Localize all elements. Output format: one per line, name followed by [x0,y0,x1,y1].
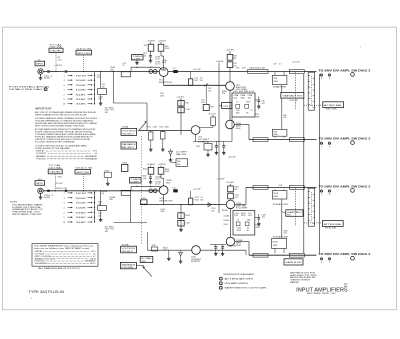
svg-text:INPUT SEL: INPUT SEL [77,53,92,55]
wire +100V drop [150,42,152,44]
svg-text:6DJ8: 6DJ8 [236,128,241,130]
svg-text:250K: 250K [76,203,88,205]
svg-text:1M 82: 1M 82 [76,75,88,77]
svg-text:1: 1 [63,75,65,77]
wire drop from S1 label [83,55,85,72]
boxed label VARIABLE (lower) [120,262,136,268]
svg-text:8: 8 [45,89,46,91]
svg-text:GAIN ADJ R37: GAIN ADJ R37 [282,95,302,98]
svg-text:WERE OBTAINED FROM THE OSCILLO: WERE OBTAINED FROM THE OSCILLOSCOPE IN U… [35,113,87,116]
svg-text:WITH CONTROL SETTINGS AND SIGN: WITH CONTROL SETTINGS AND SIGNAL CONDITI… [35,124,85,127]
boxed label S10B [121,142,137,149]
connector J101 INPUT box label [35,181,45,186]
wire CH2 plate output run y187.4 [246,186,317,188]
svg-text:WAVEFORMS FOR 4 OUTPUT AMPL: WAVEFORMS FOR 4 OUTPUT AMPL [225,287,268,290]
svg-text:500K: 500K [76,80,88,82]
ground below R51 [150,140,152,148]
svg-text:22: 22 [251,110,253,112]
resistor R111 chain [100,191,102,206]
svg-text:W: W [329,194,331,196]
wire main input line CH2 [43,190,159,192]
svg-text:250K: 250K [76,85,88,87]
svg-text:R: R [321,78,323,80]
diode CR14 circle [153,70,157,74]
svg-text:8-50: 8-50 [234,98,238,100]
svg-text:AMPL: AMPL [236,125,242,128]
ground below R111 chain [100,210,102,218]
svg-text:(ALL READINGS ARE IN VOLTS DC): (ALL READINGS ARE IN VOLTS DC) [38,267,80,270]
svg-text:+12.4V: +12.4V [193,69,202,71]
svg-text:GAIN R147: GAIN R147 [285,261,301,264]
switch slash on cathode wire [204,83,208,86]
wire R16 to transistor top [160,51,162,56]
wire Q124 emitter down to V134 [230,209,232,238]
terminal pins under W2 label [320,142,322,144]
ground CR164 [180,260,182,262]
svg-text:TO 5MV DIV AMPL SW DIAG 2: TO 5MV DIV AMPL SW DIAG 2 [318,137,371,141]
svg-text:.001: .001 [143,178,147,180]
svg-text:450K: 450K [273,81,278,83]
junction dots on CH1 input line [55,71,56,72]
resistor R28 box below wire [274,72,276,76]
svg-text:R141A R141B: R141A R141B [273,203,289,206]
resistor R161 box on line [151,247,157,251]
svg-text:NOTE:: NOTE: [10,202,19,204]
svg-text:R137: R137 [287,215,291,217]
svg-text:.6uH: .6uH [242,67,247,69]
svg-text:Y: Y [329,262,331,264]
coax line box W3a [253,186,268,190]
svg-text:TRIGGERING: TRIGGERING [35,263,48,265]
svg-text:470: 470 [97,77,100,79]
resistor R15 box [148,44,154,51]
wire Q124 to W3 [235,203,246,205]
cluster R120 divider (lower) [180,205,182,228]
svg-text:1: 1 [63,193,65,195]
resistor R38 box above wire [274,136,276,138]
wire R15 down to C16 [150,51,152,55]
svg-text:R110 BAL: R110 BAL [121,266,133,269]
capacitor C10 over input line [47,70,50,72]
terminal pins under W3 label [320,190,322,192]
svg-text:1: 1 [63,207,65,209]
svg-text:+100V: +100V [216,61,225,63]
coax line box W2a [253,138,268,142]
wire network box right components [255,99,259,101]
coax line box W1b [289,70,304,74]
svg-text:L128: L128 [278,185,282,187]
wire big box leg to bus [231,117,233,141]
wire top bus over caps [210,243,226,245]
ground below C53 [162,139,164,148]
svg-text:+12.4V: +12.4V [55,183,64,185]
svg-text:AUTO: AUTO [90,262,96,265]
resistor R11 chain [100,72,102,89]
circled diagram ref (W2) [351,141,355,145]
connector J1 INPUT box label [35,61,45,66]
svg-text:ATTEN BAL: ATTEN BAL [324,104,344,107]
svg-text:R138: R138 [273,241,278,243]
svg-text:U: U [329,146,331,148]
svg-text:VARIABLE: VARIABLE [122,143,137,146]
boxed label 1M COMP (lower) [130,178,142,183]
resistor R115 box [150,166,152,168]
boxed label ATTEN BAL (lower) [322,221,343,227]
svg-text:20K: 20K [76,217,88,219]
ground C57 [215,151,217,153]
svg-text:150K: 150K [165,171,170,173]
svg-text:R154: R154 [141,198,145,200]
resistor R122 box [189,198,193,205]
capacitor C185 [221,246,224,248]
coax line box W2b [289,138,304,142]
svg-text:.001: .001 [262,217,265,219]
wire drop from S101 label [83,174,85,191]
circled diagram ref 6 (W1) [351,73,355,77]
transistor Q164 circle [192,246,201,255]
svg-text:SW SECT: SW SECT [122,251,135,253]
wire switch common bus (upper table) [94,74,96,105]
wire R116 to V113 top [160,174,162,178]
network box upper feedback [232,93,255,117]
wire vertical x147 to DC shift stage [146,103,148,131]
svg-text:+: + [360,46,362,49]
svg-text:R35: R35 [236,112,240,114]
svg-text:4.5K: 4.5K [283,233,287,235]
svg-text:100K: 100K [76,90,88,92]
svg-text:IMPORTANT:: IMPORTANT: [35,108,52,111]
resistor R112 series box on line [121,190,130,195]
resistor R51 box hanging [149,132,154,140]
svg-text:2: 2 [63,212,65,214]
svg-text:BAL SECT: BAL SECT [122,146,135,149]
svg-text:+12.4V: +12.4V [208,113,217,115]
svg-text:R115: R115 [143,169,147,171]
svg-text:1: 1 [63,90,65,92]
svg-text:R107: R107 [105,170,109,172]
resistor R16 box [158,44,164,51]
wire R55 to Q54 [212,125,214,127]
wire cathode line to Q24 y85.3 [163,76,165,85]
svg-text:+: + [31,297,33,300]
svg-text:50K: 50K [76,94,88,96]
resistor R103 box far left [122,164,128,171]
svg-text:V: V [321,194,323,196]
diode CR54 [169,151,173,155]
resistor R12 series box on line [121,72,130,77]
diode CR113 circle [149,189,153,193]
svg-text:6DJ8: 6DJ8 [236,245,241,247]
boxed label 1M COMP [132,55,144,60]
resistor R124 box [230,184,232,186]
wire CH1 plate output run y71.5 [168,71,317,73]
svg-text:R56: R56 [196,146,199,148]
capacitor C53 box hanging [161,132,166,140]
svg-text:6.8K: 6.8K [161,211,166,213]
wire +12.4V drop to Q24 [229,51,231,54]
svg-text:1K: 1K [246,112,249,114]
svg-text:330K: 330K [256,227,261,229]
svg-text:99K: 99K [110,199,114,201]
svg-text:TO 5MV DIV AMPL SW DIAG 2: TO 5MV DIV AMPL SW DIAG 2 [318,68,371,72]
svg-text:5: 5 [63,99,65,101]
svg-text:8056: 8056 [162,62,166,64]
wire Q54 emitter to bus [195,134,197,141]
svg-text:1: 1 [220,278,221,280]
resistor R21 box [178,107,184,113]
wire CH1 cathode output run y139.6 [249,139,317,141]
ground below 1M COMP label [136,60,138,61]
svg-text:VOLTS/DIV: VOLTS/DIV [122,130,137,132]
wire switch common bus (lower table) [94,191,96,223]
svg-text:DISPLAY: DISPLAY [36,150,45,153]
svg-text:ATTEN BAL: ATTEN BAL [324,223,344,226]
svg-text:R51: R51 [148,126,151,128]
svg-text:R103: R103 [122,163,126,165]
wire vertical x147.5 lower [147,232,149,250]
svg-text:10K: 10K [177,164,181,166]
capacitor C57 pair [215,145,218,147]
svg-text:11K: 11K [200,80,204,82]
svg-text:1M: 1M [102,86,105,88]
svg-text:POSITION: POSITION [36,158,46,160]
junction dots on CH2 input line [55,190,56,191]
switch wafer tall box S110C (lower) [308,188,314,226]
svg-text:150K: 150K [165,48,170,50]
ground below C36 [258,101,260,104]
svg-text:450K: 450K [273,196,278,198]
svg-text:2.2: 2.2 [237,219,240,221]
svg-text:.001: .001 [248,215,252,217]
capacitor C136 [258,217,261,219]
switch wafer dashed line (upper) [295,72,297,110]
svg-text:+12.4V: +12.4V [292,62,301,64]
svg-text:8-50: 8-50 [234,215,238,217]
svg-text:S/N PREF 1959 - UP: S/N PREF 1959 - UP [307,293,337,295]
wire signal takeoff y222.6 [114,222,148,224]
svg-text:INPUT SEL: INPUT SEL [76,172,91,174]
node row wire y67.2 [131,66,159,68]
table VOLTAGE READINGS box [32,244,98,267]
transistor Q54 circle [191,126,200,135]
svg-text:10K: 10K [76,104,88,106]
coax line box W3b [289,186,304,190]
svg-text:R53: R53 [160,126,163,128]
svg-text:450K: 450K [273,245,278,247]
resistor R20 box [178,100,184,106]
svg-text:SW: SW [105,112,108,114]
svg-text:.5: .5 [63,85,66,87]
svg-text:-12.4V: -12.4V [228,157,237,159]
capacitor C184 cluster [214,246,217,248]
svg-text:91K: 91K [222,93,226,95]
diode CR124 on line [208,203,211,207]
svg-text:C33 .001 R33 4.7K: C33 .001 R33 4.7K [233,91,255,93]
svg-text:1-5.5: 1-5.5 [155,179,159,181]
terminal pins under W4 label [320,258,322,260]
svg-text:CALIBRATED: CALIBRATED [85,155,98,158]
wire CH2 line y204.6 [140,204,226,206]
svg-text:R15: R15 [144,45,147,47]
bead L17 on plate wire [174,70,178,73]
ground below R11 chain [100,95,102,102]
svg-text:910K: 910K [224,224,229,226]
resistor R154 small box left [141,200,147,204]
svg-text:DETAILS SEE DIAG: DETAILS SEE DIAG [9,88,43,91]
switch wafer tall box S10C (upper) [308,72,314,110]
ground C185 [222,252,224,254]
transistor V113 nuvistor circle (lower input) [159,186,168,195]
boxed label GAIN ADJ (upper) [281,92,304,98]
wire pointer wafer to ATTEN BAL [304,104,323,106]
cluster small comps x103-118 y168-180 (mid-left) [104,172,111,177]
reference item 3 [219,286,222,289]
svg-text:450K: 450K [273,134,278,136]
boxed label R60 pot [176,159,188,167]
svg-text:2.2M: 2.2M [153,126,158,128]
svg-text:2.2M: 2.2M [185,109,190,111]
svg-text:4.7: 4.7 [279,63,282,65]
wire signal takeoff y103 [114,102,148,104]
resistor R120 box [178,213,184,219]
switch wafer dashed line (lower) [295,188,297,226]
circled diagram ref (W3) [351,189,355,193]
switch arm diagonal (upper) [138,122,146,131]
svg-text:15-7.5: 15-7.5 [155,184,161,186]
svg-text:R135: R135 [237,230,242,232]
svg-text:1-5.5: 1-5.5 [155,59,159,61]
svg-text:DC BAL: DC BAL [141,257,151,260]
connector J1 circle [38,69,43,74]
transistor V34 circle [226,120,235,129]
svg-text:L28: L28 [236,67,239,69]
svg-text:R109: R109 [58,176,62,178]
switch rotor long vertical lines [303,74,305,253]
svg-text:C28: C28 [273,63,276,65]
ground below R121 [180,228,182,230]
wire main input line CH1 [43,71,159,73]
resistor R125 box [228,193,234,199]
wire dashed drop (lower CAL) [55,174,57,191]
wire pointer from R60 box [171,162,176,164]
switch arm diagonal (lower-left) [143,266,152,276]
svg-text:J1: J1 [38,59,40,61]
svg-text:S: S [329,78,330,80]
svg-text:R128: R128 [273,193,278,195]
wire signal takeoff x130.4 lower [129,195,131,222]
svg-text:8056: 8056 [166,182,170,184]
svg-text:.001: .001 [208,90,212,92]
svg-text:AMPL: AMPL [236,242,242,245]
resistor R121 box [178,220,184,226]
terminal pins under W1 label [320,74,322,76]
wire +225V drop [160,42,162,44]
svg-text:1-8: 1-8 [101,193,104,195]
svg-text:BAL R60: BAL R60 [176,153,186,156]
capacitor C116 [149,176,152,178]
svg-text:NUVISTOR: NUVISTOR [159,82,173,84]
svg-text:VARIABLE: VARIABLE [121,263,136,266]
svg-text:R161: R161 [152,245,156,247]
svg-text:11K: 11K [200,199,204,201]
wire pointer to GAIN ADJ lower [282,211,286,213]
svg-text:910K: 910K [241,98,246,100]
capacitor C58 [222,145,225,147]
svg-text:20K: 20K [76,99,88,101]
resistor R22 box [189,79,193,86]
svg-text:R120: R120 [185,215,189,217]
svg-text:X: X [321,262,323,264]
wire V113 cathode to line y204.6 [163,195,165,205]
svg-text:R160: R160 [141,261,145,263]
ground below C116 [150,178,152,180]
svg-text:SOURCE: SOURCE [191,261,201,263]
svg-text:C124A: C124A [224,214,230,217]
svg-text:FOR INSTALLATION: FOR INSTALLATION [9,85,50,88]
svg-text:+100V: +100V [147,164,156,166]
wire divider chain vertical lower [281,199,283,238]
bead L117 on lower plate wire [174,190,178,193]
svg-text:+12.4V: +12.4V [193,188,202,190]
svg-text:R23: R23 [210,107,213,109]
svg-text:5: 5 [63,217,65,219]
resistor R111 box [98,206,107,211]
capacitor C36 [258,99,261,101]
svg-text:982: 982 [233,58,236,60]
svg-text:.001: .001 [262,103,265,105]
svg-text:.2: .2 [63,80,66,82]
transistor Q24 circle [226,82,235,91]
wire pointer wafer to ATTEN BAL lower [304,222,322,224]
svg-text:982: 982 [234,189,237,191]
svg-text:-12.4V: -12.4V [229,246,238,248]
svg-text:2: 2 [220,283,221,285]
wire R125 to Q124 top [230,199,232,200]
svg-text:470K: 470K [165,126,170,128]
boxed label GAIN ADJ (lower) [286,210,303,217]
capacitor C22 box [222,103,232,109]
resistor R55 box [211,117,216,125]
ground at J1 [40,74,42,76]
reference item 2 [219,282,222,285]
svg-text:6.8K: 6.8K [160,96,165,98]
svg-text:MIDRANGE: MIDRANGE [86,157,97,160]
svg-text:MARKED: MARKED [290,281,300,284]
svg-text:1M 82: 1M 82 [76,193,88,195]
svg-text:INPUT: INPUT [36,64,45,66]
ground C184 [215,252,217,254]
svg-text:TYPE 3A3 PLUG-IN: TYPE 3A3 PLUG-IN [29,289,65,294]
ground below CR54 [170,158,172,160]
svg-text:600V: 600V [44,197,51,199]
resistor R128 box below wire [274,189,276,190]
reference item 1 [219,277,222,280]
svg-text:INPUT: INPUT [36,183,45,185]
svg-text:+12.4V: +12.4V [176,96,185,98]
capacitor C16 [149,55,152,57]
svg-text:2.2K: 2.2K [58,59,63,61]
svg-text:3: 3 [220,288,221,290]
svg-text:+12.4V: +12.4V [54,65,63,67]
svg-text:R124B: R124B [222,210,228,212]
svg-text:910K: 910K [241,215,246,217]
svg-text:1K: 1K [247,230,250,232]
ground at J101 [40,194,42,196]
svg-text:2.2: 2.2 [236,102,239,104]
svg-text:VOLTS/DIV: VOLTS/DIV [122,248,137,250]
capacitor C13 series on input line [65,70,67,72]
svg-text:.001: .001 [211,210,215,212]
